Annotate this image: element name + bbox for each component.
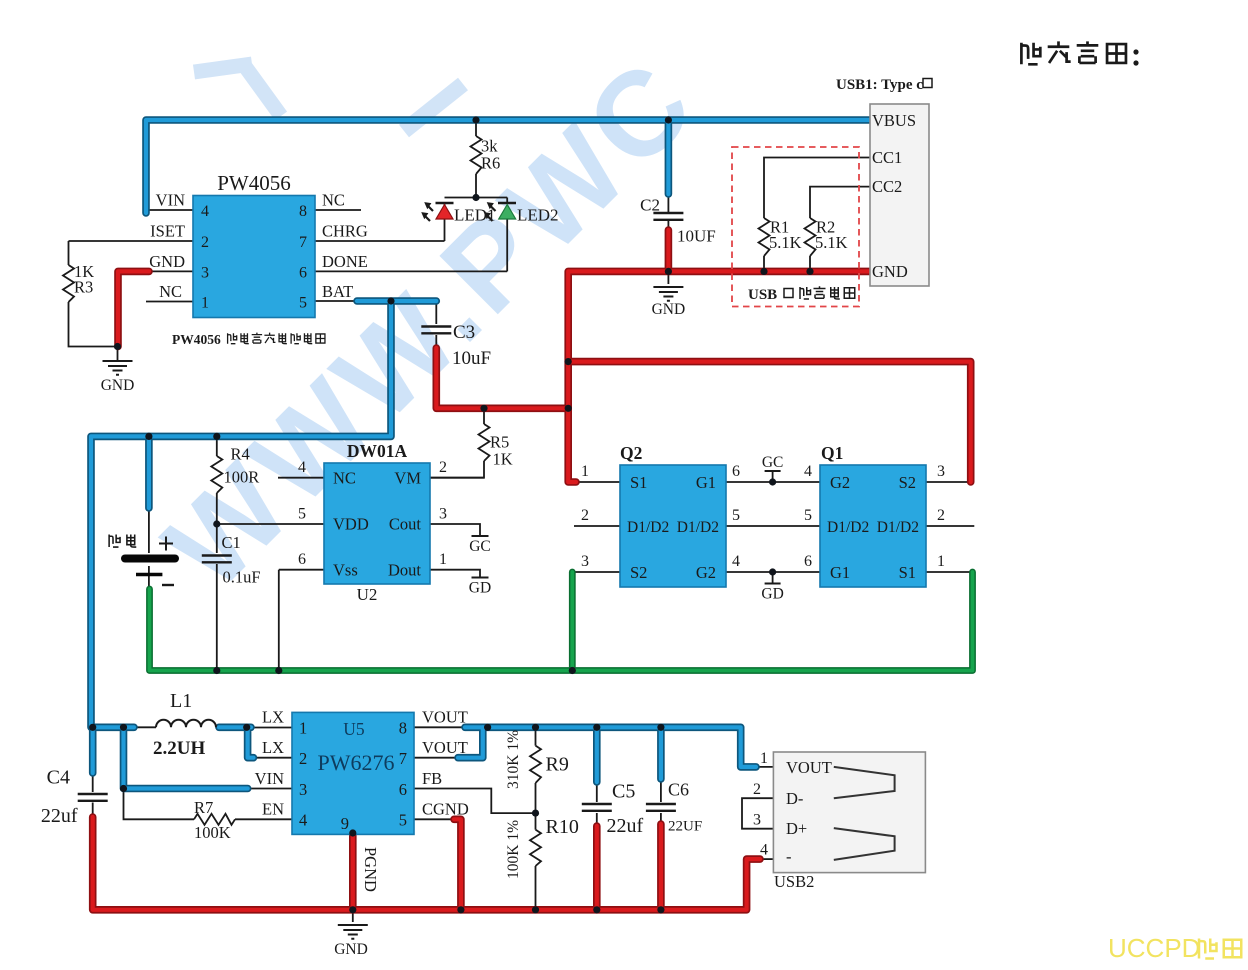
- junction GD node: [769, 568, 776, 575]
- svg-text:D1/D2: D1/D2: [627, 519, 669, 536]
- svg-text:Q1: Q1: [821, 443, 843, 463]
- wire LX2 lead: [249, 757, 292, 759]
- svg-text:2: 2: [201, 234, 209, 251]
- capacitor C4 plates: [78, 794, 108, 801]
- wire VOUT8 stub: [414, 726, 465, 728]
- junction GNDrail-CGND: [457, 906, 464, 913]
- svg-text:GND: GND: [149, 252, 185, 271]
- svg-text:U2: U2: [357, 585, 378, 604]
- wire C3 red: [436, 348, 568, 408]
- junction GNDrail-C5: [593, 906, 600, 913]
- svg-text:VIN: VIN: [255, 769, 284, 788]
- inductor L1: [156, 720, 216, 728]
- svg-text:ISET: ISET: [150, 222, 185, 241]
- junction C3 rail: [565, 405, 572, 412]
- wire VBUS top rail outline: [91, 120, 870, 789]
- wire bottom gnd rail: [93, 817, 760, 910]
- svg-text:6: 6: [804, 553, 812, 570]
- svg-text:PW4056: PW4056: [217, 171, 291, 195]
- wire Cout to GC: [430, 524, 480, 536]
- label R5: [490, 433, 513, 469]
- svg-text:Vss: Vss: [333, 561, 358, 580]
- svg-text:1: 1: [201, 295, 209, 312]
- USB1 pin names: [872, 111, 916, 281]
- resistor R6: [471, 136, 482, 174]
- IC U5 PW6276 body: [292, 712, 414, 834]
- wire C2 vbus drop: [665, 120, 673, 194]
- svg-text:G2: G2: [696, 563, 716, 582]
- svg-text:USB2: USB2: [774, 872, 814, 891]
- wire Dout to GD: [430, 570, 480, 578]
- svg-text:BAT: BAT: [322, 282, 353, 301]
- junction VOUT-pin7: [484, 724, 491, 731]
- junction GC node: [769, 478, 776, 485]
- svg-text:6: 6: [299, 265, 307, 282]
- svg-text:5: 5: [732, 507, 740, 524]
- wire C2 red drop: [665, 230, 673, 271]
- svg-text:10UF: 10UF: [677, 227, 716, 246]
- svg-text:0.1uF: 0.1uF: [223, 568, 261, 587]
- ground symbol R3: [103, 361, 133, 375]
- svg-text:D1/D2: D1/D2: [827, 519, 869, 536]
- battery plus sign: [159, 537, 173, 551]
- svg-text:U5: U5: [343, 719, 365, 739]
- svg-text:DONE: DONE: [322, 252, 368, 271]
- Q1 pin names: [827, 473, 919, 582]
- svg-text:G1: G1: [830, 563, 850, 582]
- label battery plus CJK: [109, 535, 136, 547]
- label C4: [41, 767, 78, 828]
- battery plates: [125, 559, 175, 575]
- svg-text:C2: C2: [640, 196, 660, 215]
- resistor R5: [479, 424, 490, 461]
- Q1 pin numbers: [804, 463, 945, 570]
- GD bar DW01A: [472, 577, 489, 579]
- svg-text:NC: NC: [333, 469, 356, 488]
- svg-text:LED1: LED1: [454, 206, 496, 225]
- svg-text:3: 3: [937, 463, 945, 480]
- watermark fragment top caret: [194, 64, 281, 116]
- junction VDD node: [213, 520, 220, 527]
- junction VBUS-C2: [665, 116, 672, 123]
- wire FB to divider: [414, 789, 536, 814]
- svg-text:VOUT: VOUT: [422, 738, 468, 757]
- svg-text:8: 8: [299, 203, 307, 220]
- svg-text:VIN: VIN: [156, 191, 185, 210]
- svg-text:8: 8: [399, 719, 407, 738]
- svg-text:G2: G2: [830, 473, 850, 492]
- svg-text:USB: USB: [748, 287, 777, 303]
- wire R3 gnd stem: [117, 347, 119, 361]
- label C5: [607, 781, 644, 838]
- wire CGND red: [454, 819, 461, 910]
- svg-text:100R: 100R: [224, 468, 260, 487]
- junction GND-Q2S2: [569, 667, 576, 674]
- wire USB2 pin2-3 bracket: [742, 798, 773, 829]
- wire Q2 D1/D2 stub: [574, 525, 620, 527]
- wire NC pin1 stub: [146, 301, 193, 303]
- resistor R2: [805, 218, 816, 256]
- svg-text:2.2UH: 2.2UH: [153, 738, 205, 759]
- junction BAT-battery: [145, 433, 152, 440]
- junction VOUT-R9: [532, 724, 539, 731]
- junction GND-R1: [760, 268, 767, 275]
- wire C1 stems: [216, 524, 218, 671]
- wire GND pin3 stub: [147, 270, 193, 272]
- svg-text:3: 3: [753, 812, 761, 829]
- wire VIN drop: [124, 727, 248, 788]
- svg-text:4: 4: [299, 811, 307, 830]
- wire USB2 pin1 stub: [756, 766, 773, 768]
- wire EN branch: [124, 789, 293, 820]
- wire R9 leads: [535, 727, 537, 813]
- wire Q2 S2 stub: [572, 571, 620, 573]
- GC bar DW01A: [472, 535, 489, 537]
- svg-text:7: 7: [399, 749, 407, 768]
- junction GNDrail-R10: [532, 906, 539, 913]
- svg-text:R10: R10: [546, 816, 579, 838]
- svg-text:100K: 100K: [194, 823, 231, 842]
- USB2 contact fork upper: [834, 767, 895, 798]
- wire VIN stub U5: [248, 788, 292, 790]
- svg-text:R4: R4: [231, 445, 250, 464]
- label R7: [194, 798, 231, 842]
- U5 pin numbers: [299, 719, 407, 834]
- label R3: [74, 262, 94, 297]
- caption PW4056 circuit CJK: [172, 332, 325, 347]
- capacitor C1 plates: [202, 556, 232, 563]
- wire VOUT7 stub: [414, 757, 458, 759]
- USB2 contact fork lower: [834, 828, 895, 860]
- wire VM pin2 to R5: [430, 477, 484, 479]
- svg-text:5.1K: 5.1K: [769, 233, 802, 252]
- svg-text:VOUT: VOUT: [422, 708, 468, 727]
- capacitor C6 plates: [646, 804, 676, 811]
- junction GNDrail-PGND: [349, 906, 356, 913]
- svg-text:G1: G1: [696, 473, 716, 492]
- junction VOUT-C5: [593, 724, 600, 731]
- wire red branch to Q1: [568, 362, 971, 482]
- svg-text:22UF: 22UF: [668, 819, 702, 835]
- resistor R10: [530, 830, 541, 866]
- svg-text:4: 4: [201, 203, 209, 220]
- wire VOUT7 riser: [458, 727, 483, 757]
- junction GNDrail-C6: [657, 906, 664, 913]
- svg-text:D1/D2: D1/D2: [877, 519, 919, 536]
- junction GND-C1: [213, 667, 220, 674]
- wire DONE to LED2: [315, 270, 507, 272]
- junction VBAT-VIN: [120, 724, 127, 731]
- svg-text:6: 6: [732, 463, 740, 480]
- PW4056 pin numbers: [201, 203, 307, 312]
- junction VBUS2-branch: [565, 358, 572, 365]
- svg-text:LX: LX: [262, 708, 284, 727]
- wire Q2-Q1 D1/D2: [726, 525, 820, 527]
- svg-text:4: 4: [760, 842, 768, 859]
- label USB comm resistors caption: [748, 286, 855, 303]
- svg-text:C5: C5: [612, 781, 635, 803]
- svg-text:USB1: Type c: USB1: Type c: [836, 77, 923, 93]
- svg-text:D+: D+: [786, 819, 807, 838]
- label R2: [815, 218, 848, 253]
- DW01A pin numbers: [298, 459, 447, 568]
- svg-text:6: 6: [298, 551, 306, 568]
- junction VBUS-R6: [472, 116, 479, 123]
- svg-text:VOUT: VOUT: [786, 758, 832, 777]
- USB1 title: [836, 77, 932, 93]
- capacitor C2 plates: [653, 213, 683, 220]
- wire NC pin8 stub: [315, 209, 361, 211]
- logo UCCPD forum bottom right: [1108, 933, 1241, 963]
- junction BAT-R4: [213, 433, 220, 440]
- svg-text:VBUS: VBUS: [872, 111, 916, 130]
- wire GND rail usb1: [568, 271, 870, 482]
- connector USB1 box: [870, 104, 929, 286]
- wire Vss pin6: [279, 570, 324, 671]
- svg-text:C4: C4: [47, 767, 70, 789]
- label R6: [481, 137, 500, 173]
- wire Q1 D1/D2 right stub: [926, 525, 974, 527]
- svg-text:NC: NC: [159, 282, 182, 301]
- wire VOUT rail: [465, 727, 756, 767]
- IC Q2 body: [620, 465, 726, 587]
- wire LED1 anode down: [444, 219, 446, 241]
- wire Q2G2-Q1G1: [726, 571, 820, 573]
- Q2 pin names: [627, 473, 719, 582]
- wire GD stem Q: [772, 572, 774, 584]
- wire GC stem Q: [772, 471, 774, 482]
- wire C4 stems: [92, 773, 94, 819]
- resistor R3: [63, 265, 74, 302]
- svg-text:D-: D-: [786, 789, 803, 808]
- svg-text:1: 1: [760, 750, 768, 767]
- svg-text:GD: GD: [761, 586, 783, 603]
- junction R5 top: [480, 405, 487, 412]
- svg-text:1: 1: [581, 463, 589, 480]
- LED2 triangle green: [499, 205, 516, 220]
- wire C5 red: [593, 826, 601, 910]
- wire PW4056 gnd red: [118, 271, 149, 346]
- svg-text:22uf: 22uf: [41, 805, 78, 827]
- svg-text:VM: VM: [394, 469, 421, 488]
- svg-text:UCCPD: UCCPD: [1108, 933, 1200, 963]
- svg-text:4: 4: [298, 459, 306, 476]
- svg-text:EN: EN: [262, 800, 284, 819]
- svg-text:100K 1%: 100K 1%: [505, 820, 522, 879]
- title top-right CJK: [1021, 41, 1138, 65]
- svg-text:1K: 1K: [493, 450, 513, 469]
- svg-text:C3: C3: [453, 322, 475, 343]
- wire battery plus stub: [145, 436, 153, 508]
- svg-text:Q2: Q2: [620, 443, 642, 463]
- wire VDD pin5: [217, 523, 324, 525]
- svg-text:1: 1: [937, 553, 945, 570]
- junction VBAT-C4: [89, 724, 96, 731]
- svg-text:R3: R3: [74, 278, 93, 297]
- svg-text:2: 2: [581, 507, 589, 524]
- svg-text:R9: R9: [546, 754, 569, 776]
- wire Q1 S1 stub: [926, 571, 970, 573]
- USB2 pin names: [786, 758, 832, 866]
- svg-text:S1: S1: [899, 563, 916, 582]
- wire L1 leads: [134, 726, 292, 728]
- svg-text:GND: GND: [334, 941, 368, 958]
- svg-text:3: 3: [439, 506, 447, 523]
- junction FB node: [532, 810, 539, 817]
- capacitor C3 plates: [421, 327, 451, 334]
- label R4: [224, 445, 260, 487]
- LED1 cathode bar: [436, 202, 454, 204]
- resistor R9: [530, 746, 541, 783]
- svg-text:R6: R6: [481, 154, 500, 173]
- label R1: [769, 218, 802, 253]
- battery minus sign: [162, 584, 174, 586]
- connector USB2 box: [773, 752, 925, 873]
- svg-text:7: 7: [299, 234, 307, 251]
- wire USB2 pin4 stub: [759, 858, 773, 860]
- svg-text:5: 5: [399, 811, 407, 830]
- resistor R7 horizontal: [194, 814, 235, 825]
- svg-text:2: 2: [299, 749, 307, 768]
- wire R6 vertical: [475, 120, 477, 198]
- svg-text:5: 5: [299, 295, 307, 312]
- label C6: [668, 780, 702, 835]
- LED2 arrows: [486, 204, 496, 222]
- resistor R1: [759, 218, 770, 256]
- USB2 pin numbers: [753, 750, 768, 859]
- junction R6-LED rail: [472, 194, 479, 201]
- wire LED top rail: [445, 198, 508, 272]
- junction GND-C2: [665, 268, 672, 275]
- svg-text:VDD: VDD: [333, 515, 369, 534]
- wire battery stems: [148, 510, 150, 591]
- svg-text:R7: R7: [194, 798, 213, 817]
- wire BAT net: [91, 301, 436, 773]
- svg-text:3: 3: [299, 780, 307, 799]
- wire BAT stub pin5: [315, 300, 360, 302]
- wire R10 leads: [535, 813, 537, 910]
- svg-text:NC: NC: [322, 191, 345, 210]
- svg-text:C1: C1: [222, 533, 241, 552]
- svg-text:9: 9: [341, 814, 349, 833]
- GD bar Q mid: [765, 583, 781, 585]
- svg-text:1: 1: [439, 551, 447, 568]
- ground symbol C2: [653, 287, 683, 301]
- wire R5 vertical: [430, 408, 484, 477]
- wire C2 gnd stem: [667, 271, 669, 284]
- wire C6 drop: [657, 727, 665, 779]
- wire R1 bottom: [763, 256, 765, 271]
- GC bar Q mid: [765, 470, 781, 472]
- svg-text:GD: GD: [469, 580, 491, 597]
- svg-text:2: 2: [439, 459, 447, 476]
- svg-text:S2: S2: [899, 473, 916, 492]
- wire C5 stems: [596, 782, 598, 828]
- wire VIN stub pin4: [147, 209, 193, 211]
- svg-text:22uf: 22uf: [607, 815, 644, 837]
- svg-text:2: 2: [937, 507, 945, 524]
- red nets outline: [93, 230, 971, 910]
- svg-text:PW6276: PW6276: [318, 750, 395, 775]
- LED2 cathode bar: [498, 202, 516, 204]
- label C1: [222, 533, 261, 587]
- wire C3 stem: [435, 302, 437, 350]
- svg-text:-: -: [786, 847, 792, 866]
- junction LX node: [243, 724, 250, 731]
- svg-text:L1: L1: [170, 690, 192, 712]
- wire C5 drop: [593, 727, 601, 782]
- svg-text:2: 2: [753, 781, 761, 798]
- wire PGND gnd stem: [352, 910, 354, 922]
- svg-text:PW4056: PW4056: [172, 332, 221, 347]
- junction VIN-EN: [120, 785, 127, 792]
- svg-text:CHRG: CHRG: [322, 222, 368, 241]
- wire NC pin4 DW01A: [278, 477, 324, 479]
- junction GND-R2: [806, 268, 813, 275]
- svg-text:FB: FB: [422, 769, 442, 788]
- svg-text:Dout: Dout: [388, 561, 421, 580]
- svg-text:GND: GND: [101, 377, 135, 394]
- wire Q1 S2 stub: [926, 481, 969, 483]
- svg-text:GC: GC: [469, 538, 491, 555]
- svg-text:PGND: PGND: [361, 847, 380, 892]
- svg-text:S1: S1: [630, 473, 647, 492]
- svg-text:GC: GC: [762, 454, 784, 471]
- svg-text:5: 5: [298, 506, 306, 523]
- PW4056 pin names: [149, 191, 368, 302]
- svg-text:6: 6: [399, 780, 407, 799]
- svg-text:LED2: LED2: [517, 206, 559, 225]
- svg-text:5.1K: 5.1K: [815, 233, 848, 252]
- capacitor C5 plates: [582, 804, 612, 811]
- svg-text:Cout: Cout: [389, 515, 422, 534]
- wire C6 red: [657, 824, 665, 910]
- green net outline: [150, 572, 973, 671]
- svg-text:GND: GND: [872, 262, 908, 281]
- wire CHRG to LED1: [315, 240, 445, 242]
- svg-text:S2: S2: [630, 563, 647, 582]
- wire C6 stems: [660, 779, 662, 826]
- wire CGND stub: [414, 818, 454, 820]
- U5 pin names: [255, 708, 469, 819]
- svg-text:GND: GND: [652, 301, 686, 318]
- svg-text:5: 5: [804, 507, 812, 524]
- wire Q2 S1 stub: [575, 481, 620, 483]
- wire R4 vertical: [216, 436, 218, 524]
- wire PGND red: [349, 833, 357, 910]
- wire R2 bottom: [809, 256, 811, 271]
- watermark fragment diagonal: [404, 84, 463, 131]
- IC U1 PW4056 body: [193, 196, 315, 318]
- DW01A pin names: [333, 469, 421, 580]
- wire C2 stem: [667, 194, 669, 232]
- dashed box CC resistors: [732, 147, 859, 307]
- svg-text:CC1: CC1: [872, 148, 902, 167]
- LED1 triangle red: [436, 205, 453, 220]
- svg-text:3: 3: [581, 553, 589, 570]
- svg-text:4: 4: [732, 553, 740, 570]
- junction R3-GND: [114, 343, 121, 350]
- svg-text:10uF: 10uF: [452, 348, 491, 369]
- junction GND-Vss: [275, 667, 282, 674]
- svg-text:310K 1%: 310K 1%: [505, 730, 522, 789]
- svg-text:4: 4: [804, 463, 812, 480]
- wire Q2G1-Q1G2: [726, 481, 820, 483]
- wire CC2 to R2: [810, 187, 870, 218]
- Q2 pin numbers: [581, 463, 740, 570]
- svg-text:LX: LX: [262, 738, 284, 757]
- junction BAT node: [387, 297, 394, 304]
